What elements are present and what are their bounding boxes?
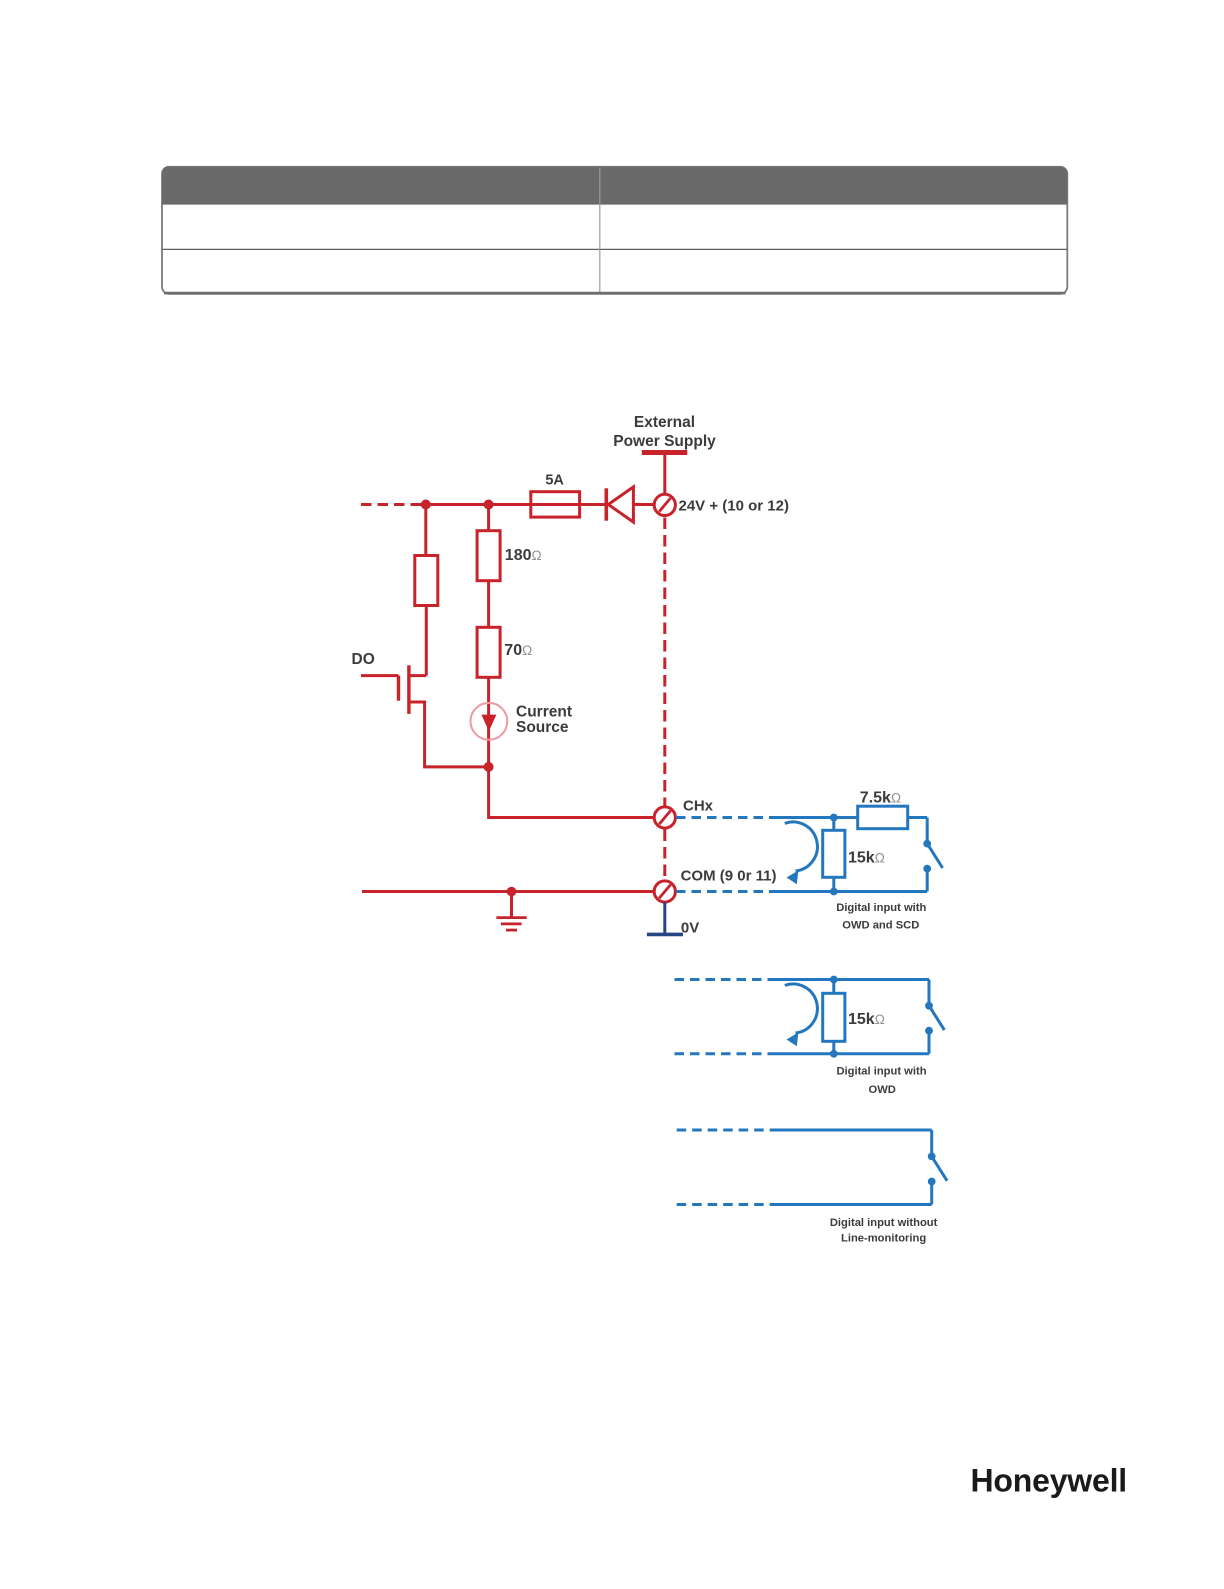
table bottom border [164, 292, 1066, 295]
node dot c1 top [830, 814, 838, 822]
terminal 24V [654, 494, 675, 515]
node junction B [484, 500, 494, 510]
svg-text:Honeywell: Honeywell [971, 1463, 1127, 1499]
svg-text:70Ω: 70Ω [504, 642, 532, 659]
transistor Q1 drain wire [409, 674, 426, 677]
wire 70 down through current source [487, 677, 490, 767]
resistor 15k stub bottom [832, 877, 835, 891]
current loop arrow circuit1 [785, 822, 818, 884]
resistor 15k circuit1 [823, 830, 845, 877]
wire down to CHx row [489, 767, 655, 818]
terminal 0V [647, 902, 683, 934]
node dot c1 bottom [830, 888, 838, 896]
switch S2 vertical bottom [928, 1031, 931, 1054]
resistor 15k circuit2 [823, 993, 845, 1041]
wire top solid [777, 978, 929, 981]
svg-text:Digital input with: Digital input with [836, 1066, 926, 1078]
node junction D [507, 887, 517, 897]
resistor 15k stub top [832, 818, 835, 831]
svg-text:0V: 0V [681, 920, 699, 937]
ground [496, 892, 526, 931]
digital input circuit 1 (OWD and SCD) [676, 818, 943, 892]
label Current Source [516, 704, 572, 736]
resistor left (unlabeled) [415, 556, 438, 606]
wire dashed bottom [675, 1052, 778, 1055]
fuse 5A [531, 492, 580, 517]
resistor 180ohm [477, 531, 500, 581]
svg-text:15kΩ: 15kΩ [848, 850, 885, 867]
table header row [162, 167, 1067, 205]
switch S1 dot bottom [923, 865, 931, 873]
diode D1 [606, 487, 633, 522]
resistor 70ohm [477, 627, 500, 677]
switch S1 vertical top [926, 818, 929, 844]
wire resistor to drain [425, 606, 428, 676]
svg-text:Line-monitoring: Line-monitoring [841, 1233, 926, 1245]
svg-text:OWD: OWD [869, 1084, 896, 1096]
svg-text:5A: 5A [545, 473, 564, 489]
label digital input without Line-monitoring [830, 1217, 938, 1245]
switch S1 blade [927, 844, 942, 868]
label digital input with OWD [836, 1066, 926, 1096]
digital input circuit 2 (OWD) [675, 980, 945, 1054]
wire branch2 vertical [487, 505, 490, 531]
label External Power Supply [613, 414, 716, 450]
wire CHx solid [777, 816, 927, 819]
current loop arrow circuit2 [785, 984, 818, 1046]
svg-text:OWD and SCD: OWD and SCD [842, 920, 919, 932]
wire dashed CHx right [676, 816, 777, 819]
switch S2 dot bottom [925, 1027, 933, 1035]
terminal CHx [654, 807, 675, 828]
switch S1 dot top [923, 840, 931, 848]
transistor Q1 source wire [409, 702, 489, 767]
transistor Q1 channel bar [407, 665, 410, 714]
svg-text:24V + (10 or 12): 24V + (10 or 12) [679, 498, 789, 515]
current source I1 circle [471, 703, 508, 740]
wire dashed COM right [676, 890, 777, 893]
current source arrow [481, 715, 496, 732]
digital input circuit 3 (without line monitoring) [677, 1130, 947, 1205]
wire COM solid [777, 890, 927, 893]
terminal COM [654, 881, 675, 902]
wire dashed top [675, 978, 778, 981]
table [162, 167, 1067, 294]
wire COM left [362, 890, 654, 893]
wire branch1 vertical [424, 505, 427, 556]
switch S3 vertical top [930, 1130, 933, 1156]
wire bottom solid [777, 1052, 929, 1055]
switch S2 vertical top [928, 980, 931, 1006]
wire fuse to diode [580, 503, 605, 506]
switch S3 vertical bottom [930, 1182, 933, 1205]
wire top solid [777, 1129, 932, 1132]
svg-text:Digital input without: Digital input without [830, 1217, 938, 1229]
wire dashed 24V to CHx [663, 518, 666, 807]
switch S2 dot top [925, 1002, 933, 1010]
node dot c2 top [830, 976, 838, 984]
table column divider [599, 168, 601, 294]
svg-text:Digital input with: Digital input with [836, 902, 926, 914]
wire 180 to 70 [487, 581, 490, 628]
wire bar to 24V terminal [663, 453, 666, 495]
wire dashed bottom [677, 1203, 777, 1206]
wire diode to 24V terminal [633, 503, 654, 506]
svg-text:Source: Source [516, 719, 569, 736]
svg-text:COM (9 0r 11): COM (9 0r 11) [681, 868, 777, 885]
wire dashed CHx to COM [663, 830, 666, 881]
wire dashed top [677, 1129, 777, 1132]
switch S1 vertical bottom [926, 869, 929, 892]
switch S3 dot top [928, 1153, 936, 1161]
svg-text:Power Supply: Power Supply [613, 433, 716, 450]
resistor 15k c2 stub bottom [832, 1041, 835, 1054]
external power supply bar [642, 450, 688, 455]
svg-text:External: External [634, 414, 695, 431]
switch S2 blade [929, 1006, 944, 1030]
svg-text:DO: DO [352, 651, 375, 668]
wire top main [417, 503, 531, 506]
table outer border [162, 167, 1067, 294]
svg-text:CHx: CHx [683, 798, 714, 815]
svg-text:180Ω: 180Ω [505, 547, 542, 564]
label digital input with OWD and SCD [836, 902, 926, 932]
node junction C [484, 762, 494, 772]
table row divider [163, 248, 1067, 250]
wire dashed top-left [361, 503, 419, 506]
wire gate DO [361, 674, 399, 677]
switch S3 blade [932, 1156, 947, 1180]
node junction A [421, 500, 431, 510]
resistor 7.5k [858, 806, 908, 829]
svg-text:15kΩ: 15kΩ [848, 1011, 885, 1028]
svg-text:7.5kΩ: 7.5kΩ [860, 789, 901, 806]
switch S3 dot bottom [928, 1178, 936, 1186]
node dot c2 bottom [830, 1050, 838, 1058]
resistor 15k c2 stub top [832, 980, 835, 994]
transistor Q1 gate bar [397, 676, 400, 701]
wire bottom solid [777, 1203, 932, 1206]
